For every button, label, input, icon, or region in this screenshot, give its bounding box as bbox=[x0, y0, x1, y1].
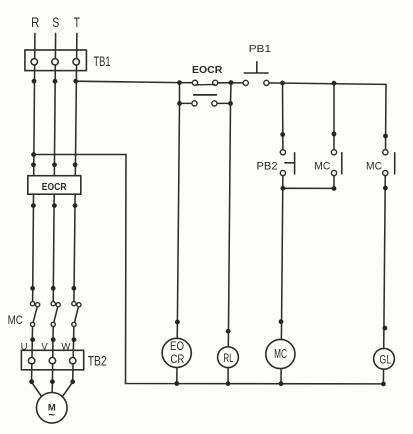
svg-text:PB2: PB2 bbox=[257, 160, 278, 172]
svg-text:PB1: PB1 bbox=[249, 43, 272, 55]
svg-text:R: R bbox=[31, 14, 39, 30]
svg-text:T: T bbox=[74, 14, 81, 30]
svg-text:TB1: TB1 bbox=[94, 53, 111, 69]
svg-text:W: W bbox=[61, 342, 70, 353]
svg-text:U: U bbox=[21, 342, 28, 353]
svg-text:~: ~ bbox=[49, 410, 56, 422]
svg-text:V: V bbox=[41, 342, 48, 353]
svg-text:TB2: TB2 bbox=[88, 353, 107, 369]
svg-text:GL: GL bbox=[380, 354, 392, 366]
svg-text:EOCR: EOCR bbox=[192, 64, 223, 76]
svg-text:MC: MC bbox=[274, 347, 287, 361]
svg-text:MC: MC bbox=[366, 160, 382, 172]
svg-text:MC: MC bbox=[8, 315, 23, 327]
svg-text:RL: RL bbox=[223, 353, 234, 365]
svg-text:CR: CR bbox=[170, 352, 184, 366]
svg-text:EOCR: EOCR bbox=[42, 181, 67, 193]
svg-text:S: S bbox=[52, 14, 59, 30]
svg-text:EO: EO bbox=[170, 339, 184, 353]
svg-text:MC: MC bbox=[314, 160, 330, 172]
